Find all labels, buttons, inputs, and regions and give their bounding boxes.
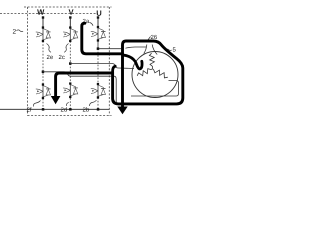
leader for label 2c — [64, 44, 68, 53]
wire U lower switch to rail (dashed) — [97, 98, 99, 110]
node V phase tap — [69, 62, 72, 65]
svg-text:V: V — [68, 8, 74, 17]
wire U upper-lower interconnect (dashed) — [97, 49, 99, 84]
box left edge — [27, 7, 29, 116]
motor winding W (lower left, zigzag) — [137, 69, 152, 76]
thin cable U phase: tap to motor top terminal — [99, 47, 146, 49]
switching element 2c (V upper) — [63, 26, 78, 42]
bold current path: short up-curl at junction of F — [113, 66, 116, 71]
leader for label 2d — [66, 102, 68, 106]
svg-text:2d: 2d — [60, 107, 67, 113]
bold current path: S-spur from A hooking motor left terminal — [124, 55, 142, 69]
svg-text:2e: 2e — [46, 55, 53, 61]
dashed horizontal bus line at top — [0, 13, 98, 15]
leader for label 26 — [148, 37, 151, 41]
lower DC rail — [0, 108, 109, 110]
thin cable W phase: tap run below bold path and down — [43, 72, 120, 105]
wire V upper-lower interconnect (dashed) — [69, 41, 71, 84]
switching element 2d (V lower) — [63, 82, 78, 98]
wire U switch to tap — [97, 41, 99, 49]
switching element 2a (U upper) — [91, 26, 106, 42]
node V top — [69, 16, 71, 18]
motor top terminal neck right — [152, 45, 157, 55]
wire V label to upper switch — [69, 18, 71, 28]
node W phase tap — [42, 71, 45, 74]
wire V lower switch to rail (dashed) — [69, 98, 71, 109]
svg-text:5: 5 — [172, 47, 176, 53]
thin cable V phase: tap toward motor left terminal — [70, 64, 134, 69]
inverter dashed enclosure box 2 — [24, 7, 112, 116]
wire U label to upper switch — [97, 18, 99, 27]
leader for label 2 — [17, 30, 24, 32]
svg-text:W: W — [37, 8, 45, 17]
arrowhead of bold path G — [51, 96, 61, 104]
node W top — [42, 16, 44, 18]
switching element 2f (W lower) — [36, 83, 51, 99]
svg-text:2f: 2f — [26, 107, 31, 113]
arrowhead of bold path A — [117, 107, 127, 115]
wire W lower switch to rail (dashed) — [42, 99, 44, 110]
node U rail — [97, 108, 100, 111]
node U phase tap — [97, 47, 100, 50]
motor winding U (top, zigzag) — [149, 53, 154, 69]
thin cable loop right of motor (to winding V terminal) — [131, 81, 179, 97]
svg-text:2: 2 — [12, 29, 16, 36]
leader for label 2a — [90, 23, 94, 26]
bold current path: U upper feed E and run D — [82, 23, 123, 54]
svg-text:2c: 2c — [58, 55, 64, 61]
switching element 2b (U lower) — [91, 83, 106, 99]
node V rail — [69, 108, 72, 111]
box top edge — [24, 6, 112, 8]
switching element 2e (W upper) — [36, 26, 51, 42]
leader for label 2b — [90, 100, 97, 106]
box bottom edge — [28, 115, 112, 117]
motor winding V (lower right, zigzag) — [152, 69, 167, 78]
wire W label to upper switch — [42, 18, 44, 28]
leader for label 2e — [47, 44, 52, 53]
box right edge — [108, 7, 110, 116]
motor top terminal neck left — [144, 45, 147, 54]
leader for label 2f — [33, 101, 40, 107]
leader for label 5 — [166, 49, 172, 50]
svg-text:2b: 2b — [82, 107, 89, 113]
bold current path: vertical A with corner to top bar B — [123, 41, 127, 108]
node U top — [97, 16, 99, 18]
node W rail — [42, 108, 45, 111]
motor 26: stator circle — [132, 52, 178, 98]
bold current path: middle run F to arrow G — [56, 73, 113, 97]
wire W upper-lower interconnect (dashed) — [42, 41, 44, 85]
bold current path: top bar B over motor and right drop C — [113, 41, 183, 104]
